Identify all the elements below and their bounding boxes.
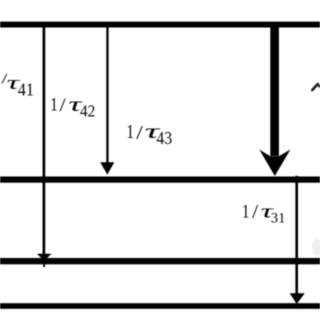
- label 1/tau31: [242, 201, 286, 226]
- svg-text:1: 1: [50, 95, 57, 115]
- label 1/tau43: [126, 119, 172, 148]
- thick pump arrow head: [259, 150, 290, 177]
- thick pump arrow shaft: [270, 24, 279, 156]
- svg-text:1: 1: [242, 202, 250, 223]
- label 1/tau41 (clipped at left edge): [1, 71, 34, 99]
- svg-text:/: /: [136, 122, 143, 144]
- label 1/tau42: [50, 94, 95, 120]
- faint clipped smudge at right edge: [312, 239, 320, 256]
- energy level E1 (bottom): [0, 303, 320, 309]
- arrow 1/tau42 tip spike through level: [43, 260, 45, 267]
- svg-text:31: 31: [271, 211, 286, 227]
- arrow 1/tau43 head: [100, 162, 114, 174]
- svg-text:/: /: [60, 95, 67, 116]
- svg-text:/: /: [252, 201, 258, 223]
- energy level E2: [0, 258, 320, 264]
- arrow 1/tau42 head: [37, 254, 52, 261]
- arrow 1/tau43 shaft: [106, 24, 108, 164]
- energy level E3: [0, 177, 320, 183]
- svg-text:41: 41: [18, 80, 34, 100]
- svg-text:1: 1: [126, 122, 134, 143]
- energy level E4 (top): [0, 22, 320, 28]
- svg-text:43: 43: [156, 128, 172, 148]
- arrow 1/tau42 shaft: [43, 24, 46, 255]
- svg-text:42: 42: [80, 101, 95, 120]
- clipped caret mark at right edge (top of cropped symbol): [312, 84, 320, 90]
- arrow 1/tau31 shaft: [295, 176, 298, 295]
- arrow 1/tau31 head: [290, 293, 305, 304]
